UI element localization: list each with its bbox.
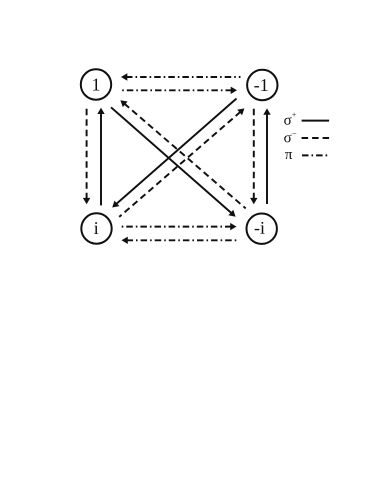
wire sigma+: i to 1 (left solid, arrow up) bbox=[97, 108, 104, 206]
legend pi label bbox=[285, 152, 328, 159]
wire sigma-: 1 to i (left dashed, arrow down) bbox=[83, 107, 90, 204]
wire pi: i to -i (bottom upper dash-dot, arrow right) bbox=[119, 223, 237, 230]
wire sigma-: -1 to -i (right dashed, arrow down) bbox=[250, 108, 257, 205]
wire pi: -i to i (bottom lower dash-dot, arrow left) bbox=[122, 237, 239, 244]
legend sigma+ label bbox=[284, 113, 329, 125]
legend sigma- label bbox=[284, 133, 329, 142]
wire sigma+: -i to -1 (right solid, arrow up) bbox=[263, 108, 270, 204]
wire pi: 1 to -1 (top lower dash-dot, arrow right) bbox=[120, 87, 237, 94]
node i bbox=[81, 213, 111, 243]
wire sigma-: i to -1 (diagonal dashed, arrow at -1) bbox=[119, 108, 244, 216]
wire pi: -1 to 1 (top upper dash-dot, arrow left) bbox=[121, 73, 241, 80]
wire sigma-: -i to 1 (diagonal dashed, arrow at 1) bbox=[120, 100, 245, 208]
node 1 bbox=[81, 69, 111, 99]
wire sigma+: -1 to i (diagonal solid, arrow at i) bbox=[112, 99, 236, 208]
wire sigma+: 1 to -i (diagonal solid, arrow at -i) bbox=[111, 107, 236, 216]
node -1 bbox=[247, 70, 277, 100]
node -i bbox=[247, 214, 277, 244]
